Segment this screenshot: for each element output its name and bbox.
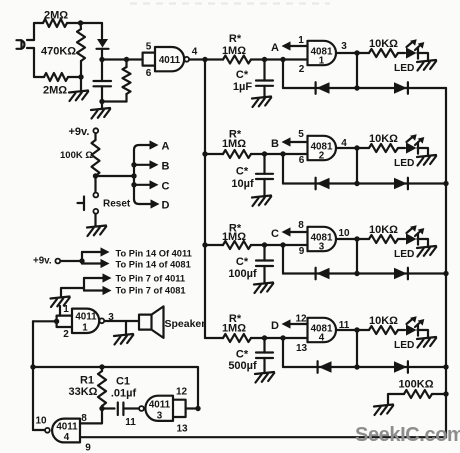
svg-text:9: 9	[85, 443, 91, 453]
svg-text:LED: LED	[394, 249, 414, 260]
svg-text:C1: C1	[116, 376, 130, 388]
svg-text:2MΩ: 2MΩ	[44, 10, 68, 22]
svg-text:100µf: 100µf	[228, 268, 257, 280]
label 1M-ohm row 2	[222, 138, 246, 150]
wire	[388, 394, 404, 405]
and gate 4081-1	[308, 41, 337, 67]
node	[354, 236, 359, 241]
wire	[186, 407, 198, 409]
svg-text:4: 4	[192, 47, 198, 58]
node	[124, 57, 129, 62]
pin 3 label	[108, 312, 114, 323]
svg-text:Speaker: Speaker	[165, 318, 206, 330]
svg-text:4011: 4011	[56, 422, 78, 433]
pin 11 label	[125, 417, 136, 428]
label R* row 1	[229, 33, 242, 45]
svg-text:4011: 4011	[159, 55, 181, 66]
svg-text:470KΩ: 470KΩ	[41, 46, 76, 58]
svg-text:500µf: 500µf	[228, 360, 257, 372]
arrow node D	[282, 319, 308, 328]
watermark seekic	[355, 424, 460, 446]
label R* row 3	[229, 223, 242, 235]
resistor R* row 1	[223, 56, 251, 64]
svg-text:8: 8	[298, 220, 304, 231]
svg-text:6: 6	[299, 155, 305, 166]
diode D1	[97, 39, 109, 49]
label 100K-ohm	[60, 150, 93, 161]
svg-text:3: 3	[319, 242, 325, 253]
svg-text:To Pin 14 Of 4011: To Pin 14 Of 4011	[116, 249, 192, 259]
resistor 10K row 4	[369, 326, 398, 334]
node	[354, 50, 359, 55]
diode right row 1	[394, 82, 408, 94]
resistor 10K row 1	[369, 49, 398, 57]
svg-text:13: 13	[176, 424, 188, 435]
svg-text:10KΩ: 10KΩ	[369, 224, 398, 236]
label C* row 1	[236, 69, 249, 81]
label 470K-ohm	[41, 46, 76, 58]
svg-text:2: 2	[299, 64, 305, 75]
svg-text:R1: R1	[80, 375, 94, 387]
and gate 4081-4	[308, 318, 337, 344]
label To Pin 14 Of 4011	[116, 249, 192, 259]
svg-text:10KΩ: 10KΩ	[369, 315, 398, 327]
resistor R1 33K	[98, 367, 106, 409]
svg-text:6: 6	[146, 68, 152, 79]
label 1M-ohm row 1	[222, 45, 246, 57]
label C value row 2	[231, 178, 254, 190]
label C* row 2	[236, 166, 249, 178]
svg-text:4011: 4011	[75, 312, 97, 323]
node	[131, 162, 136, 167]
svg-text:D: D	[271, 320, 279, 332]
svg-text:100K Ω: 100K Ω	[60, 150, 93, 161]
node	[195, 406, 200, 411]
svg-text:3: 3	[341, 41, 347, 52]
svg-text:Reset: Reset	[103, 199, 131, 210]
svg-text:10KΩ: 10KΩ	[369, 38, 398, 50]
label 10K row 4	[369, 315, 398, 327]
wire	[205, 58, 223, 60]
resistor 10K row 3	[369, 235, 398, 243]
wire	[356, 330, 358, 367]
wire	[282, 245, 284, 274]
svg-text:To Pin 7 of 4011: To Pin 7 of 4011	[116, 274, 186, 284]
svg-text:11: 11	[125, 417, 136, 428]
wire	[104, 320, 139, 322]
label R1	[80, 375, 94, 387]
capacitor C1	[118, 403, 124, 416]
wire	[418, 148, 429, 156]
capacitor C* row 2	[256, 154, 273, 197]
wire	[283, 366, 446, 368]
svg-text:2: 2	[63, 329, 69, 340]
wire	[336, 52, 357, 54]
bus from pin 4	[204, 60, 206, 339]
svg-text:1: 1	[319, 56, 325, 67]
wire	[32, 321, 34, 430]
svg-text:10µf: 10µf	[231, 178, 254, 190]
svg-text:+9v.: +9v.	[33, 256, 52, 267]
pin 13 label	[176, 424, 188, 435]
svg-text:C*: C*	[236, 69, 249, 81]
pin 4 label	[341, 138, 347, 149]
wire	[398, 147, 405, 149]
svg-text:B: B	[162, 161, 170, 173]
arrow to pin14 4011	[82, 247, 110, 256]
svg-text:1µF: 1µF	[233, 81, 252, 93]
terminal	[55, 259, 60, 264]
diode left row 3	[316, 268, 330, 280]
ground	[417, 246, 436, 257]
wire	[68, 76, 81, 78]
wire	[336, 147, 357, 149]
svg-text:C: C	[271, 228, 279, 240]
svg-text:C: C	[162, 181, 170, 193]
svg-text:LED: LED	[394, 63, 414, 74]
node	[79, 258, 84, 263]
node	[99, 406, 104, 411]
ground	[51, 297, 70, 308]
pin 11 label	[339, 320, 350, 331]
wire	[101, 49, 103, 60]
resistor R* row 4	[223, 334, 251, 342]
wire	[283, 182, 446, 184]
arrow B	[134, 160, 159, 169]
input tie bracket	[173, 400, 186, 417]
node	[280, 151, 285, 156]
wire	[282, 154, 284, 184]
wire	[283, 87, 446, 89]
fork bar 2	[83, 278, 85, 291]
node	[99, 364, 104, 369]
wire	[102, 407, 115, 409]
svg-text:5: 5	[298, 129, 304, 140]
pin 9 label	[299, 246, 305, 257]
svg-text:1MΩ: 1MΩ	[222, 138, 246, 150]
label To Pin 14 of 4081	[116, 260, 191, 270]
wire	[96, 175, 135, 177]
svg-text:.01µf: .01µf	[111, 388, 137, 400]
node	[202, 242, 207, 247]
label 10K row 2	[369, 133, 398, 145]
svg-text:To Pin 14 of 4081: To Pin 14 of 4081	[116, 260, 191, 270]
wire	[282, 338, 284, 367]
arrow C	[134, 180, 159, 189]
node	[354, 364, 359, 369]
label 33K-ohm	[69, 386, 98, 398]
svg-text:33KΩ: 33KΩ	[69, 386, 98, 398]
label B	[271, 138, 279, 150]
node	[93, 173, 98, 178]
label 10K row 1	[369, 38, 398, 50]
wire	[336, 238, 357, 240]
node	[131, 173, 136, 178]
svg-text:10: 10	[338, 228, 350, 239]
svg-text:2MΩ: 2MΩ	[43, 85, 67, 97]
node	[443, 181, 448, 186]
label C	[162, 181, 170, 193]
node	[354, 271, 359, 276]
resistor R* row 3	[223, 241, 251, 249]
label D	[271, 320, 279, 332]
node	[262, 151, 267, 156]
svg-text:9: 9	[299, 246, 305, 257]
wire	[101, 23, 103, 39]
bubble	[99, 318, 104, 323]
LED row 4	[406, 316, 424, 335]
ground	[417, 155, 436, 166]
resistor R-in vertical	[123, 60, 131, 102]
LED row 2	[406, 134, 424, 153]
pin 8 label	[81, 413, 87, 424]
svg-text:10: 10	[35, 416, 47, 427]
pin 1 label	[63, 304, 69, 315]
bus A-D	[134, 145, 150, 204]
resistor 470K-ohm	[77, 23, 85, 77]
diode right row 4	[394, 361, 408, 373]
svg-text:13: 13	[296, 343, 308, 354]
label C value row 4	[228, 360, 257, 372]
ground	[417, 60, 436, 71]
pin 12 label	[295, 314, 307, 325]
arrow to pin7 4011	[84, 273, 112, 282]
node	[443, 271, 448, 276]
terminal reset top	[93, 193, 98, 198]
terminal reset bottom	[93, 209, 98, 214]
LED row 3	[406, 225, 424, 244]
ground	[254, 283, 273, 294]
svg-text:R*: R*	[229, 33, 242, 45]
label LED row 3	[394, 249, 414, 260]
wire	[80, 436, 446, 438]
wire	[357, 329, 369, 331]
node	[443, 391, 448, 396]
svg-text:D: D	[162, 200, 170, 212]
capacitor C-in	[94, 60, 112, 109]
label 2M-ohm bottom	[43, 85, 67, 97]
wire	[61, 288, 84, 297]
ground	[69, 91, 88, 102]
node	[78, 74, 83, 79]
wire	[357, 52, 369, 54]
svg-text:2: 2	[319, 151, 325, 162]
pin 1 label	[298, 35, 304, 46]
svg-text:4: 4	[64, 432, 70, 443]
wire	[102, 100, 127, 102]
svg-text:1MΩ: 1MΩ	[222, 231, 246, 243]
svg-text:To Pin 7 of 4081: To Pin 7 of 4081	[116, 286, 186, 296]
label B	[162, 161, 170, 173]
wire	[205, 153, 223, 155]
label C* row 3	[236, 256, 249, 268]
label C	[271, 228, 279, 240]
svg-text:LED: LED	[394, 158, 414, 169]
svg-text:1MΩ: 1MΩ	[222, 45, 246, 57]
op gate 4011-4	[52, 419, 80, 443]
wire	[356, 148, 358, 184]
wire	[189, 58, 205, 60]
ground	[252, 97, 271, 108]
capacitor C* row 4	[256, 338, 273, 373]
bus right	[445, 88, 447, 437]
diode right row 2	[394, 178, 408, 190]
label To Pin 7 of 4081	[116, 286, 186, 296]
svg-text:A: A	[271, 42, 279, 54]
label LED row 2	[394, 158, 414, 169]
arrow A	[150, 140, 159, 149]
label 1M-ohm row 4	[222, 323, 246, 335]
wire	[251, 244, 308, 246]
arrow node C	[282, 227, 308, 236]
arrow node B	[282, 137, 308, 146]
wire	[418, 239, 429, 247]
diode right row 3	[394, 268, 408, 280]
ground	[87, 226, 106, 237]
node	[354, 145, 359, 150]
pin 2 label	[299, 64, 305, 75]
pin 5 label	[146, 42, 152, 53]
pin 5 label	[298, 129, 304, 140]
LED row 1	[406, 39, 424, 58]
svg-text:12: 12	[176, 387, 188, 398]
label +9v	[69, 126, 90, 138]
label A	[162, 141, 170, 153]
wire	[357, 147, 369, 149]
resistor 10K row 2	[369, 144, 398, 152]
label C value row 1	[233, 81, 252, 93]
pin 12 label	[176, 387, 188, 398]
op gate 4011-3	[145, 396, 173, 422]
pin 2 label	[63, 329, 69, 340]
label +9v lower	[33, 256, 52, 267]
wire	[251, 337, 308, 339]
ground	[252, 196, 271, 207]
diode left row 2	[316, 178, 330, 190]
node	[280, 57, 285, 62]
wire	[34, 76, 44, 78]
ground	[374, 405, 393, 416]
node	[131, 182, 136, 187]
wire	[80, 77, 82, 91]
svg-text:1: 1	[63, 304, 69, 315]
op gate U1A 4011	[155, 47, 184, 71]
wire	[102, 58, 143, 60]
svg-text:5: 5	[146, 42, 152, 53]
label C* row 4	[236, 349, 249, 361]
label 2M-ohm top	[44, 10, 68, 22]
pin 9 label	[85, 443, 91, 453]
wire	[432, 393, 446, 395]
wire	[59, 306, 61, 316]
wire	[251, 58, 308, 60]
pin 13 label	[296, 343, 308, 354]
label R* row 4	[229, 313, 242, 325]
diode left row 1	[316, 82, 330, 94]
resistor R* row 2	[223, 150, 251, 158]
terminal +9v	[93, 128, 98, 133]
node	[443, 364, 448, 369]
label Reset	[103, 199, 131, 210]
resistor 100K bottom	[404, 390, 432, 398]
ground	[91, 108, 110, 119]
node	[354, 85, 359, 90]
node	[78, 20, 83, 25]
wire	[356, 53, 358, 88]
and gate 4081-3	[308, 227, 337, 253]
speaker SP1	[139, 306, 164, 338]
svg-text:SeekIC.com: SeekIC.com	[355, 424, 460, 446]
label Speaker	[165, 318, 206, 330]
pin 10 label	[338, 228, 350, 239]
input tie bracket U1A	[143, 53, 155, 66]
node	[99, 57, 104, 62]
label 1M-ohm row 3	[222, 231, 246, 243]
svg-text:12: 12	[295, 314, 307, 325]
switch S1 reset	[78, 197, 85, 211]
wire	[283, 272, 446, 274]
wire	[125, 321, 127, 335]
pin 10 label	[35, 416, 47, 427]
wire	[205, 337, 223, 339]
svg-text:A: A	[162, 141, 170, 153]
label To Pin 7 of 4011	[116, 274, 186, 284]
watermark top	[130, 2, 330, 4]
input jack J1	[17, 40, 35, 49]
svg-text:100KΩ: 100KΩ	[398, 379, 433, 391]
svg-text:4: 4	[319, 333, 325, 344]
pin 4 label	[192, 47, 198, 58]
wire	[60, 260, 82, 262]
wire	[398, 52, 405, 54]
svg-text:B: B	[271, 138, 279, 150]
wire	[34, 23, 43, 77]
svg-text:C*: C*	[236, 256, 249, 268]
svg-text:10KΩ: 10KΩ	[369, 133, 398, 145]
wire	[33, 320, 57, 322]
ground	[417, 337, 436, 348]
input tie bracket	[57, 316, 72, 327]
wire	[80, 409, 102, 424]
wire	[251, 153, 308, 155]
label D	[162, 200, 170, 212]
label C1	[116, 376, 130, 388]
bubble	[184, 57, 189, 62]
wire	[94, 214, 96, 226]
node	[354, 181, 359, 186]
wire	[398, 238, 405, 240]
wire	[282, 60, 284, 89]
wire	[123, 407, 138, 409]
and gate 4081-2	[308, 136, 337, 162]
arrow to pin14 4081	[82, 259, 110, 268]
node	[280, 242, 285, 247]
pin 6 label	[146, 68, 152, 79]
node	[99, 99, 104, 104]
diode left row 4	[318, 361, 332, 373]
label 10K row 3	[369, 224, 398, 236]
wire	[418, 330, 429, 338]
svg-text:1: 1	[298, 35, 304, 46]
svg-text:4011: 4011	[149, 400, 171, 411]
capacitor C* row 1	[256, 60, 273, 98]
resistor 2M-ohm top	[43, 19, 67, 27]
node	[202, 57, 207, 62]
resistor 100K-ohm	[92, 133, 100, 192]
node	[262, 57, 267, 62]
node	[30, 364, 35, 369]
wire	[418, 53, 429, 61]
